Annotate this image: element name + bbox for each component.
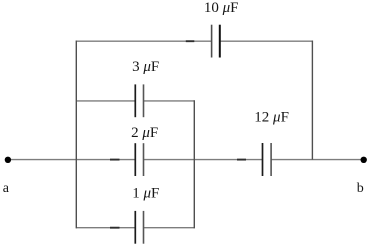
capacitor C4 1uF (bottom row) <box>135 211 143 244</box>
wire: dark lead segment on main line before 2uF <box>110 159 120 161</box>
svg-text:2 μF: 2 μF <box>131 125 158 141</box>
svg-text:1 μF: 1 μF <box>132 186 159 202</box>
wire: main line from 12uF right plate to terminal b <box>271 159 364 161</box>
svg-text:10 μF: 10 μF <box>204 0 239 16</box>
svg-text:b: b <box>357 181 364 196</box>
wire: dark lead segment on 1uF row <box>110 227 120 229</box>
capacitor C2 3uF <box>135 84 143 117</box>
wire: main line from 2uF right plate to 12uF left plate <box>144 159 263 161</box>
wire: outer right vertical (top branch down to main line) <box>311 41 313 160</box>
capacitor C1 10uF (top branch) <box>212 25 220 58</box>
wire: 3uF row left segment <box>76 100 135 102</box>
capacitor C3 2uF (on main line) <box>135 143 143 176</box>
wire: dark lead segment on top branch <box>186 40 195 42</box>
svg-text:12 μF: 12 μF <box>254 110 289 126</box>
wire: left vertical bus <box>75 41 77 229</box>
wire: main line from terminal a to 2uF left plate <box>8 159 135 161</box>
capacitor C5 12uF (right, on main line) <box>263 143 272 176</box>
wire: top branch right segment from 10uF right plate <box>220 40 313 42</box>
wire: 3uF row right segment <box>144 100 195 102</box>
terminal b (node dot) <box>361 157 367 163</box>
svg-text:a: a <box>3 181 10 196</box>
wire: dark lead segment on main line before 12uF <box>237 159 246 161</box>
wire: top branch left segment to 10uF left plate <box>76 40 211 42</box>
wire: 1uF row right segment <box>144 227 195 229</box>
svg-text:3 μF: 3 μF <box>132 59 159 75</box>
terminal a (node dot) <box>5 157 11 163</box>
wire: 1uF row left segment <box>76 227 135 229</box>
wire: inner right vertical (joins 3uF, 2uF, 1uF rows) <box>193 100 195 228</box>
